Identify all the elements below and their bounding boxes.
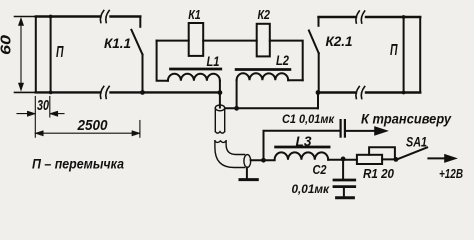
svg-text:П: П xyxy=(56,44,64,61)
svg-text:К1: К1 xyxy=(188,7,201,22)
svg-text:0,01мк: 0,01мк xyxy=(292,182,330,196)
svg-text:L3: L3 xyxy=(296,133,312,149)
svg-text:C1 0,01мк: C1 0,01мк xyxy=(282,112,335,126)
svg-text:П: П xyxy=(390,42,398,59)
svg-text:К2.1: К2.1 xyxy=(326,34,353,49)
svg-text:К1.1: К1.1 xyxy=(104,36,131,51)
svg-text:П – перемычка: П – перемычка xyxy=(32,157,124,172)
svg-text:30: 30 xyxy=(37,97,49,114)
svg-text:C2: C2 xyxy=(313,162,328,177)
svg-text:К2: К2 xyxy=(258,7,271,22)
svg-text:К трансиверу: К трансиверу xyxy=(361,112,452,127)
svg-text:R1 20: R1 20 xyxy=(363,166,395,181)
svg-text:2500: 2500 xyxy=(77,117,108,134)
svg-text:+12В: +12В xyxy=(439,166,463,181)
svg-text:60: 60 xyxy=(0,34,15,55)
svg-text:L1: L1 xyxy=(207,54,220,69)
svg-text:L2: L2 xyxy=(276,53,289,68)
svg-text:SA1: SA1 xyxy=(406,134,427,150)
